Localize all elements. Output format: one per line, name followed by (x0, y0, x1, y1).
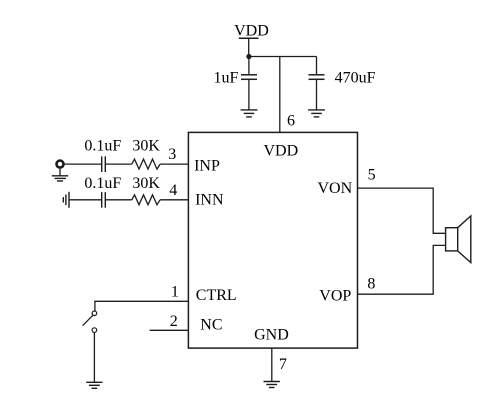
wire pin 8 (VOP) (358, 245, 446, 294)
ground (1uF) (241, 110, 258, 117)
svg-text:30K: 30K (132, 175, 160, 192)
svg-text:0.1uF: 0.1uF (84, 175, 121, 192)
wire R-INP to pin 3 (160, 163, 188, 165)
svg-text:5: 5 (368, 167, 376, 184)
svg-text:VDD: VDD (264, 143, 299, 160)
wire pin 1 (CTRL) (95, 301, 188, 311)
svg-text:VON: VON (318, 180, 353, 197)
wire 470uF bottom (316, 79, 318, 109)
wire S1 to ground (93, 333, 95, 383)
resistor 30K (INP) (132, 159, 160, 169)
capacitor 0.1uF (INN) (102, 192, 106, 208)
svg-text:7: 7 (279, 356, 287, 373)
wire C-INP to R-INP (105, 163, 132, 165)
svg-text:1uF: 1uF (214, 70, 239, 87)
wire R-INN to pin 4 (160, 199, 188, 201)
svg-text:8: 8 (367, 275, 375, 292)
svg-text:VOP: VOP (319, 288, 351, 305)
wire 470uF top (316, 57, 318, 75)
wire pin 2 (NC stub) (150, 329, 189, 331)
wire INN ground to C-INN (69, 199, 101, 201)
svg-text:NC: NC (200, 316, 222, 333)
svg-text:30K: 30K (132, 138, 160, 155)
resistor 30K (INN) (132, 195, 160, 205)
wire 1uF bottom (248, 79, 250, 109)
wire pin 7 (GND) (271, 348, 273, 381)
IC U1 body (188, 132, 357, 348)
svg-text:470uF: 470uF (335, 69, 376, 86)
ground (S1) (86, 382, 102, 388)
capacitor 1uF (241, 75, 257, 80)
ground (INN input, sideways) (63, 192, 69, 208)
capacitor 470uF (309, 75, 325, 80)
ground (470uF) (308, 110, 325, 117)
switch S1 (83, 311, 97, 332)
ground (J1) (52, 176, 68, 181)
svg-text:INN: INN (195, 191, 224, 208)
ground (pin 7) (264, 382, 280, 388)
svg-text:0.1uF: 0.1uF (84, 138, 121, 155)
wire 1uF top (248, 57, 250, 75)
wire J1 to ground (59, 169, 61, 176)
power bar VDD (239, 37, 259, 39)
svg-text:CTRL: CTRL (196, 287, 237, 304)
svg-text:6: 6 (287, 112, 295, 129)
wire pin 5 (VON) (358, 188, 446, 233)
svg-text:1: 1 (171, 284, 179, 301)
wire VDD stub (248, 38, 250, 56)
svg-text:4: 4 (169, 182, 177, 199)
wire pin 6 (279, 57, 281, 133)
speaker LS1 (446, 216, 471, 263)
svg-text:VDD: VDD (234, 23, 269, 40)
wire C-INN to R-INN (105, 199, 132, 201)
wire J1 to C-INP (65, 163, 101, 165)
wire VDD rail (249, 56, 317, 58)
capacitor 0.1uF (INP) (102, 156, 106, 172)
junction dot (246, 54, 251, 59)
svg-text:GND: GND (254, 326, 289, 343)
svg-text:2: 2 (170, 313, 178, 330)
connector J1 (INP input) (57, 161, 64, 168)
svg-text:3: 3 (168, 146, 176, 163)
svg-text:INP: INP (194, 157, 220, 174)
